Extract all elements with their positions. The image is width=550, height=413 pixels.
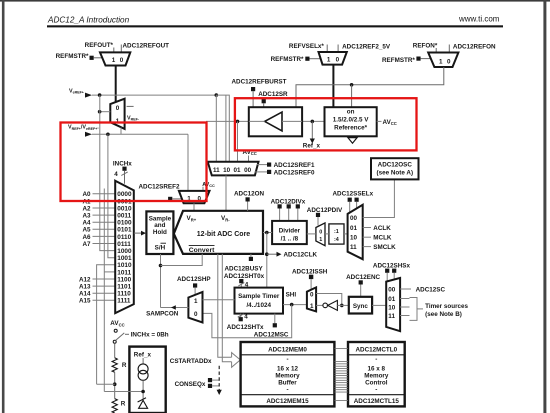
svg-text:ADC12SHSx: ADC12SHSx xyxy=(373,262,411,269)
svg-text:R: R xyxy=(122,362,127,369)
label REFVSELx* xyxy=(289,43,327,52)
svg-text:ADC12_A Introduction: ADC12_A Introduction xyxy=(47,16,130,25)
svg-text:SHI: SHI xyxy=(286,292,297,299)
svg-text:ACLK: ACLK xyxy=(373,225,391,232)
label ADC12SSELx xyxy=(333,191,374,213)
svg-text:1000: 1000 xyxy=(117,248,132,255)
label REFMSTR* (middle) xyxy=(271,56,320,63)
label ADC12REF2_5V xyxy=(338,43,391,52)
ADC12OSC box U16 xyxy=(371,158,419,179)
svg-text:1001: 1001 xyxy=(117,255,132,262)
mux U13 ADC12PDIV xyxy=(316,223,325,246)
label ADC12SREF2 xyxy=(139,183,182,201)
svg-text:0: 0 xyxy=(447,59,451,66)
wire REFOUT mux output xyxy=(115,66,117,103)
svg-text:16 x 12: 16 x 12 xyxy=(277,365,299,372)
input arrow VREF+/VeREF+ xyxy=(85,132,92,137)
svg-text:A7: A7 xyxy=(82,241,91,248)
label ADC12SR xyxy=(258,91,288,107)
svg-text:REFMSTR*: REFMSTR* xyxy=(271,56,304,63)
svg-text:-: - xyxy=(286,356,288,363)
wire U3 output to reference block xyxy=(332,65,334,108)
svg-text:REFMSTR*: REFMSTR* xyxy=(382,57,415,64)
label AVcc (above SREF mux) xyxy=(243,149,257,162)
svg-text:1101: 1101 xyxy=(117,284,131,291)
svg-text:1: 1 xyxy=(327,56,331,63)
wires timer source inputs xyxy=(400,299,409,316)
resistor R2 xyxy=(112,399,126,413)
svg-text:ADC12SR: ADC12SR xyxy=(258,91,288,98)
mux U2 VREF- select (vertical) xyxy=(110,99,124,129)
svg-text:1: 1 xyxy=(319,237,322,243)
svg-text:INCHx: INCHx xyxy=(113,160,132,167)
svg-text:Sync: Sync xyxy=(353,303,369,310)
svg-text:/1 .. /8: /1 .. /8 xyxy=(281,236,299,243)
label MCLK xyxy=(363,235,392,242)
mux U22 trigger source select xyxy=(386,278,400,331)
wire SHI net xyxy=(203,303,307,338)
svg-text:-: - xyxy=(286,387,288,394)
svg-text:Timer sources: Timer sources xyxy=(425,303,468,310)
wire CSTARTADDx bus xyxy=(218,254,232,362)
wire reference buffer output rail xyxy=(206,120,325,162)
svg-text:R: R xyxy=(121,401,126,408)
wire divider-pdiv-prescaler-ssel xyxy=(307,233,348,235)
svg-text:INCHx = 0Bh: INCHx = 0Bh xyxy=(131,332,169,339)
svg-text:10: 10 xyxy=(223,167,231,174)
label ADC12SHT0x xyxy=(224,273,265,289)
mux U19 ADC12ISSH xyxy=(307,287,316,311)
svg-text:REFVSELx*: REFVSELx* xyxy=(289,43,325,50)
svg-text::1: :1 xyxy=(334,229,339,235)
svg-text:1100: 1100 xyxy=(117,276,131,283)
wire sample timer to U18 input 1 xyxy=(203,299,235,301)
mux U3 REFVSEL xyxy=(319,52,347,65)
svg-text:-: - xyxy=(375,387,377,394)
svg-text:-: - xyxy=(375,356,377,363)
inverter U20 xyxy=(316,300,349,310)
svg-text:Hold: Hold xyxy=(153,229,167,236)
label ADC12ISSH xyxy=(292,268,328,289)
label AVcc (above SREF2 mux) xyxy=(202,182,215,191)
svg-text:/4../1024: /4../1024 xyxy=(246,302,271,309)
svg-text:REFON*: REFON* xyxy=(413,42,438,49)
svg-text:00: 00 xyxy=(350,215,358,222)
svg-text:www.ti.com: www.ti.com xyxy=(458,15,500,24)
rail VeREF+ to mux channel 1001 xyxy=(108,134,115,257)
memory buffer box U23 xyxy=(241,342,335,406)
label ADC12REFON xyxy=(449,44,496,53)
bracket timer sources xyxy=(410,298,424,321)
wire temp sensor tap into Ref_x xyxy=(104,390,145,394)
svg-text:Memory: Memory xyxy=(364,372,389,379)
wire Ref_x tap arrow xyxy=(310,121,315,143)
svg-text:ADC12SHTx: ADC12SHTx xyxy=(227,324,264,331)
svg-text:ADC12ENC: ADC12ENC xyxy=(346,274,380,281)
svg-text:0100: 0100 xyxy=(117,220,132,227)
svg-text:Reference*: Reference* xyxy=(334,124,367,131)
svg-text:ADC12ON: ADC12ON xyxy=(234,191,265,198)
svg-text:0: 0 xyxy=(319,230,322,236)
svg-text:Control: Control xyxy=(365,379,388,386)
svg-text:REFMSTR*: REFMSTR* xyxy=(56,53,89,60)
svg-text:11: 11 xyxy=(350,244,357,251)
label ADC12PDIV xyxy=(307,207,343,225)
svg-text:A6: A6 xyxy=(82,234,91,241)
svg-text:on: on xyxy=(347,108,355,115)
input arrow VeREF+ xyxy=(85,93,92,98)
wire REFON net xyxy=(296,67,444,107)
svg-text:1010: 1010 xyxy=(117,262,132,269)
mux U8 ADC12SREF2 xyxy=(179,191,210,203)
label REFOUT* xyxy=(85,42,114,52)
mux U7 reference select (11 10 01 00) xyxy=(208,162,259,176)
svg-text:(see Note A): (see Note A) xyxy=(377,170,414,177)
red highlight rectangle (left) xyxy=(61,123,207,202)
svg-text:A14: A14 xyxy=(79,291,91,298)
wire U2 output to left rail xyxy=(98,110,111,114)
wire SAMPCON net xyxy=(159,254,203,310)
svg-text:0101: 0101 xyxy=(117,227,132,234)
rail temp sensor to mux channel 1011 xyxy=(104,189,115,392)
svg-text:A3: A3 xyxy=(82,213,91,220)
svg-text:ADC12SREF2: ADC12SREF2 xyxy=(139,183,180,190)
svg-text:ADC12SSELx: ADC12SSELx xyxy=(333,191,374,198)
wire core to divider with ADC12CLK tap xyxy=(263,231,282,288)
open arrow CSTARTADDx into memory xyxy=(232,353,241,368)
svg-text:10: 10 xyxy=(350,235,358,242)
label ADC12BUSY xyxy=(225,254,264,273)
svg-text:ADC12MCTL15: ADC12MCTL15 xyxy=(354,398,400,405)
wires A12-A15 to input mux xyxy=(93,279,116,300)
red highlight rectangle (right, reference section) xyxy=(235,98,417,150)
svg-text:ADC12REFBURST: ADC12REFBURST xyxy=(232,79,287,86)
svg-text:SMCLK: SMCLK xyxy=(373,244,396,251)
svg-text:Memory: Memory xyxy=(275,372,300,379)
svg-text:Ref_x: Ref_x xyxy=(134,352,152,359)
wire reference AVcc output xyxy=(377,120,382,122)
reference source U6 (1.5/2.0/2.5V Reference) xyxy=(325,107,377,136)
sample and hold box U10 xyxy=(146,211,173,254)
mux U4 REFON select xyxy=(428,53,458,68)
wire switch to resistor xyxy=(114,343,116,358)
input channel labels A0-A7 xyxy=(82,191,91,248)
ground symbol under reference xyxy=(348,138,357,144)
svg-text:00: 00 xyxy=(244,167,252,174)
svg-text:0000: 0000 xyxy=(117,191,132,198)
svg-text:0110: 0110 xyxy=(117,234,131,241)
svg-text:CSTARTADDx: CSTARTADDx xyxy=(170,358,212,365)
divider box U12 xyxy=(272,221,307,244)
page left edge band xyxy=(2,0,5,413)
svg-text:0011: 0011 xyxy=(117,213,131,220)
svg-text:(see Note B): (see Note B) xyxy=(425,311,462,318)
svg-text:12-bit ADC Core: 12-bit ADC Core xyxy=(197,231,251,238)
svg-text:ADC12SC: ADC12SC xyxy=(416,287,446,294)
svg-text:0: 0 xyxy=(336,56,340,63)
mux U15 clock source select xyxy=(348,205,363,259)
label VeREF+ xyxy=(69,89,84,95)
label ADC12ENC xyxy=(346,274,380,297)
header rule xyxy=(47,25,503,27)
sync box U21 xyxy=(349,297,372,314)
mux U18 ADC12SHP xyxy=(188,292,202,323)
svg-text:11: 11 xyxy=(388,313,395,320)
Ref_x box U25 xyxy=(129,347,165,413)
wire VREF- stub xyxy=(127,105,134,107)
svg-text:ADC12PDIV: ADC12PDIV xyxy=(307,207,343,214)
page top edge line xyxy=(0,0,550,2)
label REFON* xyxy=(413,42,438,52)
svg-text:1011: 1011 xyxy=(117,269,131,276)
svg-text:Ref_x: Ref_x xyxy=(303,142,321,149)
wire U7 output to core VR- xyxy=(225,175,227,210)
svg-text:ADC12SREF0: ADC12SREF0 xyxy=(274,169,315,176)
svg-text:0: 0 xyxy=(116,105,120,112)
svg-text:16 x 8: 16 x 8 xyxy=(368,365,386,372)
svg-text:A2: A2 xyxy=(82,205,91,212)
svg-text:ADC12OSC: ADC12OSC xyxy=(378,162,413,169)
ADC core box U11 xyxy=(174,211,263,254)
svg-text:A0: A0 xyxy=(82,191,91,198)
svg-text:4: 4 xyxy=(114,171,118,178)
svg-text:CONSEQx: CONSEQx xyxy=(175,381,206,388)
svg-text:0: 0 xyxy=(194,311,198,318)
svg-text:Divider: Divider xyxy=(279,228,301,235)
label CONSEQx xyxy=(175,378,220,388)
mux U1 REFOUT select xyxy=(100,52,130,65)
svg-text:ADC12ISSH: ADC12ISSH xyxy=(292,268,328,275)
svg-text:A12: A12 xyxy=(79,276,91,283)
svg-text:ADC12SHP: ADC12SHP xyxy=(177,276,211,283)
label INCHx xyxy=(113,160,132,184)
label ADC12SHTx xyxy=(227,313,264,331)
prescaler box U14 (:1 :4) xyxy=(329,224,344,244)
label SMCLK xyxy=(363,244,396,251)
label ADC12REFOUT xyxy=(121,43,169,53)
svg-text:ADC12REF2_5V: ADC12REF2_5V xyxy=(342,43,391,50)
svg-text:10: 10 xyxy=(388,305,396,312)
label ADC12SC xyxy=(400,287,445,294)
svg-text:1.5/2.0/2.5 V: 1.5/2.0/2.5 V xyxy=(333,116,370,123)
rail avcc divider to mux channel 1010 xyxy=(97,265,116,384)
wire resistor junction xyxy=(97,372,117,398)
wire ADC12OSC to U15 xyxy=(363,180,395,218)
label ADC12MSC xyxy=(254,314,289,339)
svg-text:11: 11 xyxy=(213,167,220,174)
label ADC12SHSx xyxy=(373,262,411,281)
sample timer box U17 xyxy=(235,288,284,314)
svg-text:ADC12MEM15: ADC12MEM15 xyxy=(266,398,309,405)
label ACLK xyxy=(363,225,392,232)
svg-text:MCLK: MCLK xyxy=(373,235,392,242)
svg-text:ADC12BUSY: ADC12BUSY xyxy=(225,265,264,272)
label ADC12SREF1 xyxy=(257,162,315,169)
svg-text:ADC12SHT0x: ADC12SHT0x xyxy=(224,273,265,280)
wire U8 output to core VR+ xyxy=(193,203,195,211)
svg-text:1111: 1111 xyxy=(117,298,131,305)
mux U9 analog input select xyxy=(115,181,134,314)
svg-text:01: 01 xyxy=(350,225,358,232)
label Timer sources (see Note B) xyxy=(425,303,468,318)
memory control box U24 xyxy=(348,342,405,406)
svg-text:ADC12SREF1: ADC12SREF1 xyxy=(274,162,315,169)
svg-text:ADC12MEM0: ADC12MEM0 xyxy=(268,346,307,353)
svg-text:Buffer: Buffer xyxy=(278,379,297,386)
rail VREF+ to mux channel 1000 xyxy=(100,95,115,251)
wire VeREF+ rail to SREF mux xyxy=(92,93,229,162)
svg-text:S/H: S/H xyxy=(155,244,166,251)
wire sync to SHS mux xyxy=(372,304,386,306)
resistor R1 xyxy=(112,358,127,373)
label ADC12SHP xyxy=(177,276,211,295)
label ADC12DIVx xyxy=(271,198,306,221)
wire ISSH bypass loop xyxy=(316,294,344,308)
wire VREF+ line to SREF2 bend xyxy=(92,128,188,191)
label ADC12ON xyxy=(234,191,265,211)
input channel labels A12-A15 xyxy=(79,276,91,304)
svg-text:ADC12REFON: ADC12REFON xyxy=(453,44,496,51)
label ADC12REFBURST xyxy=(232,79,287,108)
svg-text:1110: 1110 xyxy=(117,291,131,298)
svg-text:0: 0 xyxy=(120,57,124,64)
svg-text:4: 4 xyxy=(244,313,248,320)
svg-text:A15: A15 xyxy=(79,298,91,305)
label REFMSTR* (right) xyxy=(382,57,430,65)
svg-text::4: :4 xyxy=(334,237,339,243)
svg-text:01: 01 xyxy=(388,296,396,303)
svg-text:A4: A4 xyxy=(82,220,91,227)
svg-text:1: 1 xyxy=(194,298,198,305)
svg-text:0111: 0111 xyxy=(117,241,131,248)
svg-text:SAMPCON: SAMPCON xyxy=(146,310,179,317)
bus hatch between memory boxes xyxy=(334,348,348,400)
svg-text:1: 1 xyxy=(439,59,443,66)
svg-text:A13: A13 xyxy=(79,284,91,291)
svg-text:0010: 0010 xyxy=(117,205,132,212)
switch SW1 INCHx=0Bh xyxy=(113,329,129,343)
svg-text:ADC12MCTL0: ADC12MCTL0 xyxy=(355,346,397,353)
svg-text:0: 0 xyxy=(310,291,314,298)
svg-text:REFOUT*: REFOUT* xyxy=(85,42,114,49)
svg-text:ADC12CLK: ADC12CLK xyxy=(284,252,318,259)
svg-text:ADC12REFOUT: ADC12REFOUT xyxy=(123,43,170,50)
page right edge band xyxy=(543,0,546,413)
buffer U5 (reference buffer box) xyxy=(249,107,302,136)
svg-text:A5: A5 xyxy=(82,227,91,234)
wires A0-A7 to input mux xyxy=(93,194,116,244)
label REFMSTR* (left) xyxy=(56,53,102,60)
wire CONSEQx dashed pointer xyxy=(217,366,222,395)
svg-text:1: 1 xyxy=(310,303,314,310)
svg-text:00: 00 xyxy=(388,287,396,294)
svg-text:1: 1 xyxy=(112,57,116,64)
svg-text:Convert: Convert xyxy=(189,247,215,254)
label ADC12SREF0 xyxy=(255,169,316,176)
wire U9 output to sample and hold xyxy=(134,231,146,236)
svg-text:Sample Timer: Sample Timer xyxy=(238,293,280,300)
svg-text:01: 01 xyxy=(233,167,241,174)
